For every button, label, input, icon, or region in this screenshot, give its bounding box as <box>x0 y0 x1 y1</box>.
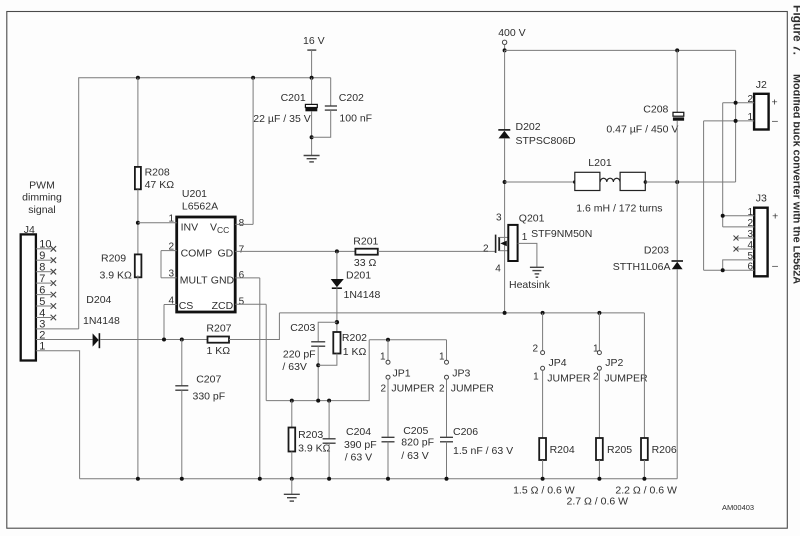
wire jumper bus y=339.7 <box>369 339 446 341</box>
transistor Q201 <box>496 225 518 261</box>
svg-text:R202: R202 <box>342 332 367 344</box>
wire GD line left <box>235 250 355 252</box>
connector J3 <box>754 208 767 277</box>
wire C208 branch <box>676 50 678 112</box>
junction J2 pin1 / output <box>734 119 738 123</box>
svg-text:2: 2 <box>483 243 489 254</box>
svg-text:JP1: JP1 <box>393 367 411 379</box>
wire D202 branch <box>504 50 506 129</box>
wire cap bus y=400.6 <box>266 340 369 401</box>
junction ground bus / R205 <box>597 477 601 481</box>
svg-text:J4: J4 <box>24 224 35 236</box>
svg-text:2: 2 <box>380 383 386 394</box>
J4 pin 2 <box>39 329 45 341</box>
capacitor C201 <box>305 104 317 111</box>
svg-text:330 pF: 330 pF <box>193 391 226 403</box>
wire 16V drop <box>311 50 313 78</box>
svg-text:R201: R201 <box>353 236 378 248</box>
svg-text:AM00403: AM00403 <box>722 503 754 512</box>
U201 pin 5 stub <box>235 297 266 308</box>
wire J2 pin1 to J3 pin6 <box>703 121 705 270</box>
svg-text:D202: D202 <box>516 121 541 133</box>
svg-text:INV: INV <box>181 222 199 234</box>
wire R208 to INV node <box>137 189 139 253</box>
wire D201 to R202/C203 node <box>336 288 338 332</box>
U201 pin 8 stub <box>235 218 253 229</box>
svg-text:STTH1L06A: STTH1L06A <box>613 261 671 273</box>
svg-text:8: 8 <box>239 218 245 229</box>
wire C201 branch <box>311 78 313 105</box>
junction ground bus / R204 <box>541 477 545 481</box>
junction ground bus / GND pin <box>258 477 262 481</box>
svg-text:Heatsink: Heatsink <box>509 279 551 291</box>
svg-text:1.6 mH / 172 turns: 1.6 mH / 172 turns <box>576 203 662 215</box>
svg-text:L201: L201 <box>588 157 612 169</box>
svg-text:ZCD: ZCD <box>212 300 234 312</box>
inductor L201 <box>573 172 647 190</box>
junction CS node <box>162 338 166 342</box>
svg-text:R208: R208 <box>145 167 170 179</box>
svg-text:R209: R209 <box>101 253 126 265</box>
wire J3 pin6 row <box>704 261 755 272</box>
J4 pin 8 <box>36 262 56 275</box>
svg-text:signal: signal <box>28 204 55 216</box>
svg-text:Q201: Q201 <box>519 213 545 225</box>
wire R202 bottom jog <box>318 354 337 366</box>
svg-text:3: 3 <box>747 229 753 240</box>
connector J4 <box>21 234 36 360</box>
node 400V terminal <box>498 27 525 45</box>
svg-text:D203: D203 <box>644 244 669 256</box>
jumper JP1 <box>386 340 390 437</box>
resistor R207 <box>208 337 230 343</box>
wire D202 to switch node <box>504 138 506 313</box>
ground symbol below R203 <box>284 479 300 501</box>
U201 pin 4 stub <box>164 295 177 306</box>
wire GND pin to ground bus <box>259 278 261 479</box>
svg-text:2: 2 <box>747 218 753 229</box>
svg-text:JP2: JP2 <box>605 357 623 369</box>
svg-text:16 V: 16 V <box>303 35 325 47</box>
jumper JP2 <box>597 313 601 438</box>
wire C201 to ground <box>311 111 313 155</box>
svg-text:1N4148: 1N4148 <box>83 315 120 327</box>
svg-text:STPSC806D: STPSC806D <box>516 135 577 147</box>
junction ground bus / C206 <box>445 477 449 481</box>
svg-text:5: 5 <box>747 251 753 262</box>
svg-text:dimming: dimming <box>22 192 62 204</box>
jumper JP3 <box>445 340 449 437</box>
svg-text:C204: C204 <box>346 426 371 438</box>
wire J2 pin2 to J3 pin1 <box>722 103 724 227</box>
svg-text:33 Ω: 33 Ω <box>354 257 377 269</box>
svg-text:47 KΩ: 47 KΩ <box>145 179 175 191</box>
svg-text:JP4: JP4 <box>549 357 567 369</box>
wire J3 pin5 row <box>723 251 755 270</box>
svg-text:1 KΩ: 1 KΩ <box>207 345 231 357</box>
junction C201/C202 bottom <box>310 135 314 139</box>
junction ground bus / C207 <box>180 477 184 481</box>
svg-text:COMP: COMP <box>181 247 213 259</box>
junction CS line / Q201 source <box>503 311 507 315</box>
J4 pin 4 <box>36 307 56 320</box>
wire J3 pin1 row <box>723 215 755 217</box>
wire J4 pin3 to Vcc rail <box>36 328 79 330</box>
wire R201 to Q201 gate <box>378 250 496 252</box>
resistor R201 <box>355 249 377 255</box>
capacitor C203 <box>311 342 325 346</box>
svg-text:C203: C203 <box>290 322 315 334</box>
svg-text:2: 2 <box>747 94 753 105</box>
wire Q201 pin1 to heatsink <box>518 243 537 267</box>
svg-text:D201: D201 <box>346 269 371 281</box>
svg-text:/ 63 V: / 63 V <box>345 451 372 463</box>
wire D203 to ground bus <box>676 269 678 478</box>
junction ground bus / R203 <box>290 477 294 481</box>
svg-text:1: 1 <box>747 207 753 218</box>
J4 pin 6 <box>36 284 56 297</box>
junction 400V rail <box>503 48 507 52</box>
resistor R209 <box>135 254 142 277</box>
svg-text:MULT: MULT <box>180 274 208 286</box>
resistor R208 <box>135 78 141 190</box>
wire C203 bottom <box>317 346 319 400</box>
svg-text:220 pF: 220 pF <box>283 348 316 360</box>
resistor R204 <box>539 438 546 479</box>
svg-text:GD: GD <box>218 247 234 259</box>
svg-text:7: 7 <box>239 245 245 256</box>
diode D202 <box>498 130 510 139</box>
junction 400V rail / C208 <box>675 48 679 52</box>
svg-text:C205: C205 <box>403 425 428 437</box>
wire J4 pin2 to D204 <box>36 339 93 341</box>
junction J3 pin1 <box>721 214 725 218</box>
wire L201 to output node <box>645 181 735 183</box>
wire switch node to L201 <box>505 181 575 183</box>
capacitor C206 <box>440 437 453 478</box>
svg-text:820 pF: 820 pF <box>401 437 434 449</box>
svg-text:GND: GND <box>211 274 235 286</box>
wire D203 branch <box>676 182 678 260</box>
wire J2 pin2 row <box>723 102 754 104</box>
svg-text:JUMPER: JUMPER <box>604 373 648 385</box>
svg-text:C207: C207 <box>196 374 221 386</box>
svg-text:U201: U201 <box>182 188 207 200</box>
svg-text:PWM: PWM <box>29 179 55 191</box>
svg-text:6: 6 <box>239 270 245 281</box>
svg-text:2: 2 <box>593 372 599 383</box>
svg-text:C208: C208 <box>643 103 668 115</box>
J4 pin 9 <box>36 250 56 263</box>
U201 pin 7 stub <box>239 245 245 256</box>
svg-text:R206: R206 <box>652 444 677 456</box>
svg-text:1: 1 <box>439 352 445 363</box>
svg-text:/ 63 V: / 63 V <box>401 450 428 462</box>
junction ground bus / C205 <box>386 477 390 481</box>
svg-text:C202: C202 <box>339 92 364 104</box>
junction C203/R202 bottom <box>316 363 320 367</box>
wire R209 to ground bus <box>137 275 139 478</box>
U201 pin 3 stub <box>161 269 177 280</box>
svg-text:1N4148: 1N4148 <box>344 289 381 301</box>
svg-text:J3: J3 <box>756 193 767 205</box>
svg-text:1.5 nF / 63 V: 1.5 nF / 63 V <box>453 445 513 457</box>
svg-text:R203: R203 <box>298 429 323 441</box>
junction jumper bus / JP1 <box>386 338 390 342</box>
junction CS line / JP2 <box>597 311 601 315</box>
diode D204 <box>93 333 100 348</box>
svg-text:6: 6 <box>747 261 753 272</box>
svg-text:100 nF: 100 nF <box>339 112 372 124</box>
wire J2 pin1 row <box>704 120 755 122</box>
svg-text:1: 1 <box>522 232 528 243</box>
wire C203 top branch <box>318 322 337 341</box>
svg-text:3: 3 <box>496 212 502 223</box>
svg-text:2: 2 <box>439 383 445 394</box>
svg-text:JP3: JP3 <box>452 367 470 379</box>
wire ground bus <box>80 478 678 480</box>
capacitor C205 <box>382 437 395 478</box>
resistor R206 <box>641 313 648 479</box>
resistor R202 <box>333 332 340 354</box>
svg-text:L6562A: L6562A <box>182 201 218 213</box>
svg-text:1 KΩ: 1 KΩ <box>343 346 367 358</box>
wire COMP-MULT link <box>160 251 162 278</box>
U201 pin 2 stub <box>161 241 177 252</box>
J4 pin 1 <box>39 341 45 353</box>
wire C207 to ground bus <box>181 390 183 479</box>
svg-text:3.9 KΩ: 3.9 KΩ <box>298 442 331 454</box>
svg-text:1: 1 <box>533 372 539 383</box>
J3 pin 4 stub <box>734 240 755 251</box>
svg-text:5: 5 <box>239 297 245 308</box>
figure caption (vertical) <box>791 5 800 284</box>
svg-text:JUMPER: JUMPER <box>451 382 495 394</box>
capacitor C202 <box>325 106 337 110</box>
svg-text:/ 63V: / 63V <box>282 361 307 373</box>
svg-text:2.2 Ω / 0.6 W: 2.2 Ω / 0.6 W <box>615 484 677 496</box>
junction Vcc rail / pin8 branch <box>251 76 255 80</box>
ground heatsink <box>530 267 544 277</box>
node 16V terminal <box>303 35 325 50</box>
diode D203 <box>672 261 684 269</box>
svg-text:390 pF: 390 pF <box>344 439 377 451</box>
wire ZCD pin to cap bus <box>265 304 267 400</box>
wire D204 to CS node <box>100 339 207 341</box>
wire CS sense line y=312.9 <box>279 312 644 314</box>
jumper JP4 <box>541 313 545 438</box>
svg-text:C206: C206 <box>453 426 478 438</box>
junction cap bus / R203 <box>290 399 294 403</box>
wire pin8 to Vcc rail <box>252 78 254 225</box>
junction ground bus / R208 chain <box>136 477 140 481</box>
svg-text:3.9 KΩ: 3.9 KΩ <box>100 270 133 282</box>
ground below C201 <box>304 156 320 162</box>
svg-text:4: 4 <box>495 264 501 275</box>
junction D204 node / C207 <box>180 338 184 342</box>
svg-text:4: 4 <box>747 240 753 251</box>
svg-text:1: 1 <box>380 352 386 363</box>
svg-text:–: – <box>772 260 778 272</box>
junction switch node / L201 <box>503 180 507 184</box>
svg-text:C201: C201 <box>281 92 306 104</box>
svg-text:1.5 Ω / 0.6 W: 1.5 Ω / 0.6 W <box>513 484 575 496</box>
capacitor C207 <box>175 386 188 390</box>
U201 pin 1 stub <box>138 214 177 225</box>
wire rail to J2/output vertical <box>735 50 737 182</box>
capacitor C204 <box>323 401 336 479</box>
svg-text:1: 1 <box>593 343 599 354</box>
svg-text:J2: J2 <box>756 79 767 91</box>
svg-text:STF9NM50N: STF9NM50N <box>531 228 592 240</box>
svg-text:R204: R204 <box>550 444 575 456</box>
junction Vcc rail / R208 branch <box>136 76 140 80</box>
diode D201 <box>331 279 344 288</box>
J4 pin 5 <box>36 296 56 309</box>
J4 pin 7 <box>36 273 56 286</box>
J4 pin 3 <box>39 319 45 331</box>
junction ground bus / R206 <box>642 477 646 481</box>
wire C202 bottom <box>312 110 331 137</box>
junction cap bus / C203 <box>316 399 320 403</box>
junction D201/C203/R202 <box>335 320 339 324</box>
wire J3 pin2 row <box>723 226 755 228</box>
svg-text:JUMPER: JUMPER <box>547 373 591 385</box>
svg-text:1: 1 <box>747 112 753 123</box>
resistor R203 <box>289 401 296 479</box>
junction CS line / JP4 <box>541 311 545 315</box>
connector J2 <box>754 94 769 130</box>
junction cap bus / C204 <box>327 399 331 403</box>
svg-text:400 V: 400 V <box>498 27 525 39</box>
svg-text:2: 2 <box>532 343 538 354</box>
svg-text:+: + <box>772 211 778 223</box>
label PWM dimming signal <box>22 179 62 216</box>
wire Vcc rail y=77.7 <box>79 78 331 329</box>
junction GD line / D201 <box>335 249 339 253</box>
svg-text:22 µF / 35 V: 22 µF / 35 V <box>253 113 310 125</box>
wire J4 pin1 to ground bus <box>36 351 80 479</box>
wire CS pin to D204 node <box>163 305 165 340</box>
J4 pin 10 <box>36 239 56 252</box>
wire C202 branch <box>330 78 332 106</box>
U201 pin 6 stub <box>235 270 260 281</box>
svg-text:JUMPER: JUMPER <box>391 382 435 394</box>
wire C207 branch <box>181 340 183 386</box>
svg-text:Figure 7.Modified buck convert: Figure 7.Modified buck converter with th… <box>791 5 800 284</box>
junction Vcc rail / C201 <box>310 76 314 80</box>
junction J2 pin2 / rail <box>734 101 738 105</box>
svg-text:CS: CS <box>179 300 194 312</box>
wire R207 to CS sense line <box>229 313 279 340</box>
resistor R205 <box>596 438 603 479</box>
capacitor C208 <box>673 112 684 120</box>
junction INV node <box>136 221 140 225</box>
svg-text:R205: R205 <box>607 444 632 456</box>
wire 400V drop <box>504 45 506 51</box>
svg-text:R207: R207 <box>206 323 231 335</box>
wire 400V rail <box>505 49 736 51</box>
svg-text:0.47 µF / 450 V: 0.47 µF / 450 V <box>606 124 678 136</box>
junction J3 pin6 <box>721 268 725 272</box>
svg-text:2.7 Ω / 0.6 W: 2.7 Ω / 0.6 W <box>567 496 629 508</box>
junction output node / C208 <box>675 180 679 184</box>
wire C208 bottom <box>676 121 678 182</box>
svg-text:D204: D204 <box>86 294 111 306</box>
svg-text:–: – <box>772 115 778 127</box>
J3 pin 3 stub <box>734 229 755 240</box>
svg-text:+: + <box>772 97 778 109</box>
op-amp U201 L6562A <box>177 217 236 312</box>
junction ground bus / C204 <box>327 477 331 481</box>
wire D201 branch <box>336 251 338 279</box>
